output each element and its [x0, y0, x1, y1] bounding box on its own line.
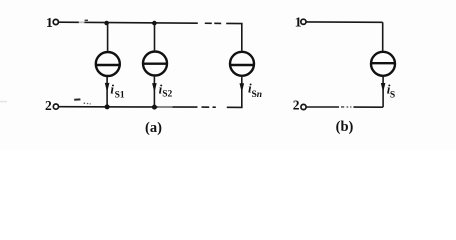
svg-text:(b): (b) [336, 119, 354, 135]
svg-text:2: 2 [45, 98, 52, 113]
svg-text:Sn: Sn [252, 90, 263, 100]
svg-text:(a): (a) [145, 120, 162, 136]
svg-text:S2: S2 [162, 90, 172, 100]
svg-text:S1: S1 [115, 90, 125, 100]
svg-text:1: 1 [46, 16, 53, 31]
svg-text:1: 1 [295, 16, 302, 31]
svg-text:2: 2 [293, 98, 300, 113]
svg-text:S: S [390, 91, 395, 101]
